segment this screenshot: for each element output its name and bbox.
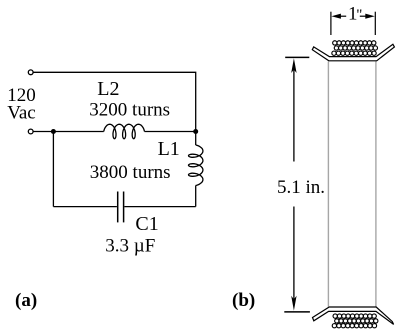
- node junction left: [51, 129, 56, 134]
- top coil winding circles: [332, 41, 378, 56]
- wire right branch upper: [195, 132, 197, 146]
- top trough strip: [312, 44, 394, 61]
- bottom trough strip: [313, 307, 394, 324]
- dimension 1 inch arrow right: [360, 15, 368, 17]
- bottom coil winding circles: [332, 314, 378, 328]
- svg-text:(a): (a): [15, 290, 37, 311]
- inductor L2: [104, 124, 145, 138]
- wire middle left: [33, 131, 104, 133]
- svg-text:Vac: Vac: [7, 102, 35, 123]
- wire top branch: [33, 72, 196, 131]
- arrowhead up: [291, 58, 296, 73]
- svg-text:L2: L2: [97, 78, 119, 100]
- svg-text:L1: L1: [158, 138, 180, 160]
- dimension 1 inch extension lines: [331, 12, 375, 35]
- dimension line upper segment: [293, 64, 295, 162]
- svg-text:": ": [356, 7, 362, 23]
- arrowhead right: [365, 14, 375, 19]
- wire middle right: [145, 131, 196, 133]
- arrowhead down: [291, 296, 296, 311]
- arrowhead left: [331, 14, 341, 19]
- wire left branch down: [52, 132, 54, 207]
- svg-text:C1: C1: [135, 213, 158, 235]
- capacitor C1 plates: [117, 192, 119, 223]
- tube wall right: [375, 62, 377, 307]
- svg-text:5.1 in.: 5.1 in.: [277, 177, 325, 198]
- tube wall left: [327, 62, 329, 307]
- svg-text:(b): (b): [232, 290, 255, 311]
- svg-text:3800 turns: 3800 turns: [90, 162, 171, 183]
- svg-text:3200 turns: 3200 turns: [89, 99, 170, 120]
- dimension 5.1 tick bottom: [284, 311, 310, 313]
- terminal bottom-left: [28, 129, 33, 134]
- dimension 5.1 tick top: [285, 56, 309, 58]
- svg-text:3.3 µF: 3.3 µF: [105, 236, 155, 257]
- terminal top-left: [28, 70, 33, 75]
- dimension line lower segment: [293, 207, 295, 306]
- dimension 1 inch arrow left: [339, 15, 347, 17]
- wire bottom right: [124, 206, 195, 208]
- wire bottom left: [53, 206, 117, 208]
- node junction right: [193, 129, 198, 134]
- inductor L1: [189, 145, 203, 186]
- wire right branch lower: [195, 186, 197, 207]
